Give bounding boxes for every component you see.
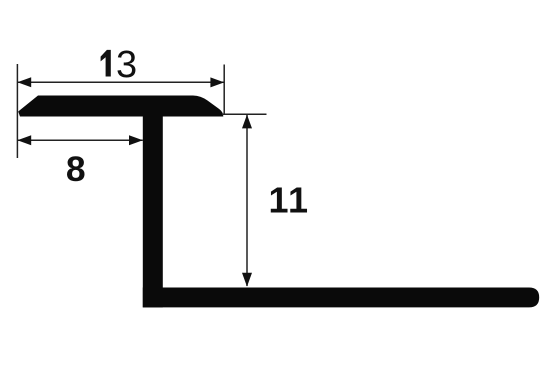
arrowhead top of dimension 11 <box>242 115 252 129</box>
profile top flange <box>18 96 223 117</box>
arrowhead left of dimension 13 <box>17 77 31 87</box>
arrowhead left of dimension 8 <box>17 135 31 145</box>
svg-text:11: 11 <box>268 180 309 221</box>
svg-text:3: 3 <box>116 44 137 86</box>
arrowhead right of dimension 13 <box>210 77 224 87</box>
arrowhead right of dimension 8 <box>129 135 143 145</box>
extension line right of dimension 13 <box>223 65 225 115</box>
arrowhead bottom of dimension 11 <box>242 273 252 287</box>
extension line top of dimension 11 <box>222 113 267 115</box>
profile bottom base <box>143 288 539 308</box>
label 13 : digit 1 drawn as path (arial-style, no foot serif) <box>101 50 111 77</box>
svg-text:8: 8 <box>66 149 86 189</box>
profile vertical stem <box>143 100 163 307</box>
dimension line 13 <box>17 81 224 83</box>
dimension line 8 <box>17 139 142 141</box>
extension line left of dimension 13 <box>16 64 18 158</box>
dimension line 11 <box>246 115 248 286</box>
